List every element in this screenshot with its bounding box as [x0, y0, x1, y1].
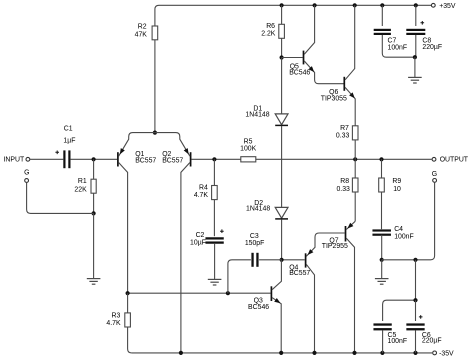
svg-text:R3: R3	[111, 313, 120, 320]
node input junction	[92, 157, 96, 161]
wire R5 to OUTPUT	[256, 158, 432, 160]
resistor R1 22K	[93, 159, 95, 179]
resistor R8 0.33	[354, 159, 356, 178]
svg-text:BC557: BC557	[162, 157, 183, 164]
capacitor C5 100nF	[373, 323, 391, 325]
svg-text:R2: R2	[138, 24, 147, 31]
svg-text:R1: R1	[78, 178, 87, 185]
svg-text:OUTPUT: OUTPUT	[440, 157, 469, 164]
transistor Q2 BC557	[190, 152, 192, 166]
svg-text:G: G	[24, 169, 29, 176]
wire R3 to -35V rail	[128, 327, 132, 353]
wire R1 junction to ground	[93, 213, 95, 278]
resistor R5 100K	[241, 157, 256, 162]
resistor R6 2.2K	[281, 5, 283, 24]
resistor R4 4.7K	[213, 159, 215, 185]
ground below R1	[87, 279, 101, 285]
svg-text:C1: C1	[64, 125, 73, 132]
wire R2 to tail junction	[154, 40, 156, 133]
resistor R9 10	[381, 159, 383, 178]
wire R6 to Q5 base node	[281, 38, 283, 57]
wire to D1	[281, 58, 283, 114]
wire Q3 base line	[128, 292, 271, 294]
wire Q5 emitter to Q6 base	[304, 61, 343, 84]
svg-text:TIP2955: TIP2955	[322, 243, 348, 250]
wire Q3 emitter	[272, 298, 281, 353]
wire Q1 collector	[119, 163, 128, 294]
wire D2 to Q4 base node	[281, 219, 283, 259]
wire Q4 base	[282, 259, 305, 261]
svg-text:4.7K: 4.7K	[106, 320, 121, 327]
resistor R2 47K	[152, 26, 158, 40]
junction on +35V rail at C7	[380, 3, 384, 7]
capacitor C6 220uF	[406, 323, 424, 325]
junction on +35V rail at C8	[414, 3, 418, 7]
wire C7 to ground link	[382, 35, 415, 57]
node +35V rail	[155, 5, 432, 26]
wire C8 to ground node	[415, 35, 417, 57]
junction on -35V rail at Q7 collector	[352, 351, 356, 355]
terminal G input	[25, 179, 29, 183]
wire Q7 emitter	[346, 221, 355, 229]
svg-text:10µF: 10µF	[190, 239, 206, 246]
svg-text:1N4148: 1N4148	[246, 205, 270, 212]
wire Q6 emitter	[345, 87, 355, 125]
wire C6 to -35V rail	[415, 331, 417, 353]
wire C1 to Q1 base	[71, 158, 117, 160]
svg-text:BC546: BC546	[289, 70, 310, 77]
wire Q5 collector	[304, 5, 314, 54]
ground below C2	[208, 279, 222, 285]
wire Q4 collector	[306, 264, 314, 353]
wire C3 branch	[228, 260, 251, 293]
svg-text:100K: 100K	[240, 145, 256, 152]
node Q5 base junction	[280, 55, 284, 59]
terminal +35V	[431, 3, 435, 7]
node output junction R9	[379, 157, 383, 161]
wire R7 to output line	[354, 140, 356, 159]
capacitor C3 150pF	[251, 253, 253, 267]
svg-text:1N4148: 1N4148	[245, 112, 269, 119]
junction on -35V rail at C5	[380, 351, 384, 355]
transistor Q5 BC546	[282, 57, 303, 59]
node output junction R7 R8	[353, 157, 357, 161]
svg-text:BC557: BC557	[135, 157, 156, 164]
terminal G output	[433, 179, 437, 183]
node ground bus junction	[413, 258, 417, 262]
capacitor C7 100nF	[381, 5, 383, 26]
node Q1 collector junction	[126, 291, 130, 295]
svg-text:0.33: 0.33	[336, 132, 350, 139]
terminal INPUT	[26, 157, 30, 161]
wire Q2 base to junction	[191, 158, 240, 160]
junction on +35V rail at Q5 collector	[313, 3, 317, 7]
resistor R7 0.33	[352, 126, 358, 140]
wire G to ground bus	[382, 182, 435, 259]
svg-text:+35V: +35V	[439, 3, 456, 10]
node -35V rail	[132, 352, 433, 354]
node R1 bottom junction	[92, 211, 96, 215]
wire C2 to ground	[214, 244, 216, 279]
diode D2 1N4148	[275, 207, 288, 218]
junction on -35V rail at Q3 emitter	[279, 351, 283, 355]
node C4 ground junction	[380, 258, 384, 262]
capacitor C2 10uF	[205, 237, 223, 239]
ground below C8	[414, 57, 416, 77]
svg-text:220µF: 220µF	[422, 338, 442, 345]
capacitor C8 220uF	[415, 5, 417, 26]
capacitor C4 100nF	[372, 229, 391, 231]
svg-text:100nF: 100nF	[394, 234, 414, 241]
wire Q4 emitter to Q7 base	[306, 233, 344, 256]
transistor Q6 TIP3055	[343, 77, 345, 91]
svg-text:TIP3055: TIP3055	[321, 95, 347, 102]
node C6 top junction	[413, 298, 417, 302]
capacitor C1 1uF	[63, 150, 65, 168]
node Q2 base junction	[212, 157, 216, 161]
svg-text:R9: R9	[392, 178, 401, 185]
wire Q7 collector	[346, 238, 354, 353]
svg-text:150pF: 150pF	[245, 240, 265, 247]
svg-text:BC546: BC546	[248, 304, 269, 311]
wire Q2 emitter	[155, 133, 190, 157]
svg-text:C7: C7	[388, 38, 397, 45]
transistor Q7 TIP2955	[345, 226, 347, 242]
wire C4 to ground node	[381, 235, 383, 260]
wire INPUT to C1	[30, 158, 64, 160]
svg-text:C2: C2	[196, 232, 205, 239]
svg-text:R6: R6	[266, 23, 275, 30]
svg-text:10: 10	[393, 186, 401, 193]
junction on -35V rail at C6	[413, 351, 417, 355]
node tail junction	[153, 131, 157, 135]
svg-text:100nF: 100nF	[388, 45, 408, 52]
wire R9 to C4	[381, 192, 383, 229]
junction on -35V rail at Q2 collector	[179, 351, 183, 355]
wire C3 to Q4 base node	[259, 259, 282, 261]
node Q4 base junction	[280, 258, 284, 262]
svg-text:R8: R8	[340, 178, 349, 185]
transistor Q4 BC557	[305, 253, 307, 267]
wire C5 to -35V rail	[382, 331, 384, 353]
junction on +35V rail at R6	[280, 3, 284, 7]
svg-text:G: G	[432, 171, 437, 178]
svg-text:R7: R7	[340, 125, 349, 132]
svg-text:0.33: 0.33	[336, 186, 350, 193]
node C3 branch junction	[226, 291, 230, 295]
svg-text:R4: R4	[199, 184, 208, 191]
svg-text:100nF: 100nF	[388, 338, 408, 345]
junction on +35V rail at Q6 collector	[353, 3, 357, 7]
transistor Q3 BC546	[271, 286, 273, 301]
svg-text:4.7K: 4.7K	[194, 192, 209, 199]
svg-text:R5: R5	[244, 138, 253, 145]
junction on -35V rail at Q4 collector	[312, 351, 316, 355]
ground below C4	[381, 260, 383, 279]
wire Q6 collector	[345, 5, 355, 80]
wire G to R1 bottom	[27, 182, 94, 213]
wire Q3 collector	[272, 260, 281, 290]
svg-text:2.2K: 2.2K	[261, 31, 276, 38]
transistor Q1 BC557	[117, 152, 119, 166]
wire Q1 emitter	[119, 133, 155, 157]
svg-text:22K: 22K	[74, 186, 87, 193]
wire D1 to D2	[281, 126, 283, 208]
diode D1 1N4148	[275, 114, 288, 125]
svg-text:INPUT: INPUT	[4, 156, 25, 163]
node supply ground junction	[413, 55, 417, 59]
wire R8 to Q7 emitter	[354, 192, 356, 221]
svg-text:47K: 47K	[135, 31, 148, 38]
wire ground bus to C5 C6	[383, 260, 416, 321]
wire Q2 collector	[181, 163, 190, 353]
terminal -35V	[433, 351, 437, 355]
svg-text:-35V: -35V	[439, 351, 454, 358]
wire to C6 top	[415, 300, 417, 321]
svg-text:BC557: BC557	[289, 270, 310, 277]
svg-text:220µF: 220µF	[422, 44, 442, 51]
terminal OUTPUT	[432, 157, 436, 161]
svg-text:C4: C4	[394, 226, 403, 233]
svg-text:1µF: 1µF	[63, 137, 75, 144]
resistor R3 4.7K	[127, 293, 129, 313]
